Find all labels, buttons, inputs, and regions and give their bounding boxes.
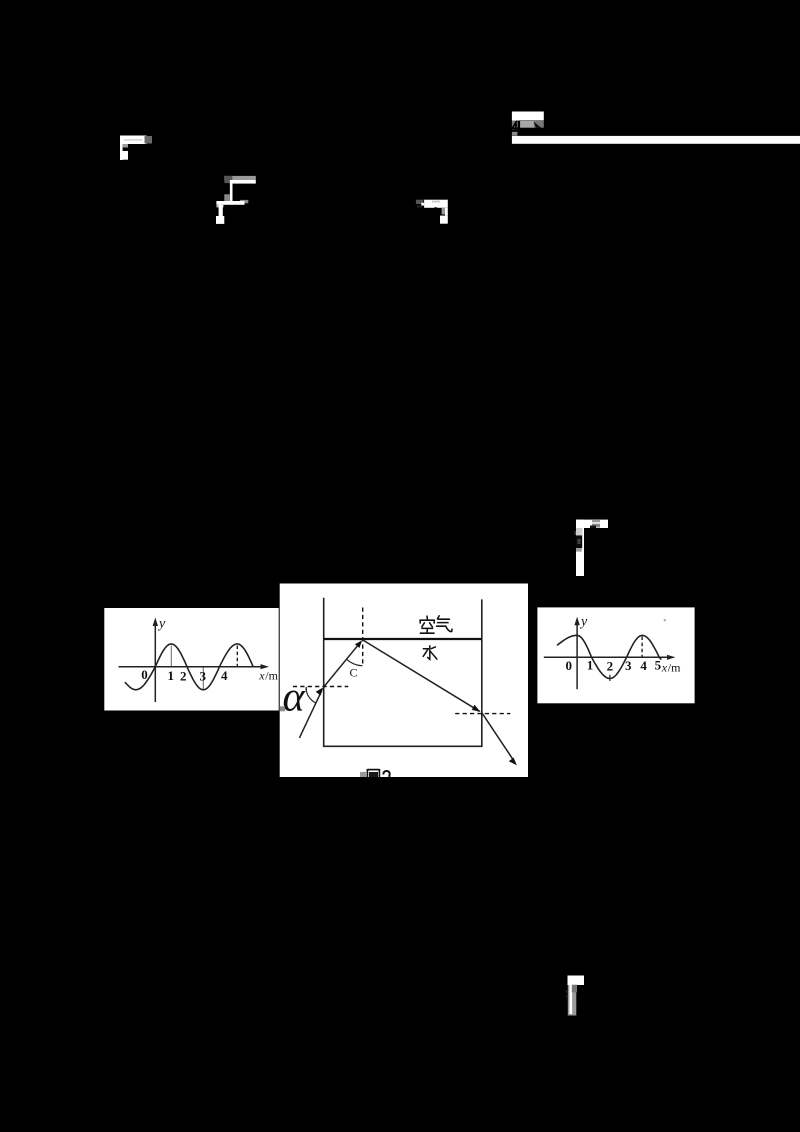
svg-text:4: 4: [221, 668, 228, 683]
caption 图2 (clipped): [367, 769, 389, 777]
x-axis: [544, 656, 671, 658]
arrowhead bottom right: [509, 758, 517, 766]
refracted ray beyond wall: [482, 713, 515, 763]
x-axis arrowhead: [261, 664, 270, 669]
svg-text:/m: /m: [265, 669, 278, 683]
arrowhead incident: [316, 687, 324, 695]
arrowhead at C: [355, 640, 362, 648]
svg-text:y: y: [579, 615, 588, 630]
svg-text:0: 0: [565, 658, 572, 673]
fragment F with 4 and long rule: [512, 112, 544, 136]
wave right: [557, 635, 661, 678]
beaker bottom: [323, 745, 483, 747]
tick on alpha arc: [305, 687, 307, 692]
fragment A white bar top: [120, 136, 152, 161]
x-axis arrowhead right graph: [667, 655, 675, 660]
dashed at peak2 right: [641, 637, 643, 657]
svg-text:2: 2: [607, 659, 614, 674]
dashed horizontal right: [455, 713, 510, 715]
tick at trough right: [609, 675, 611, 681]
svg-text:C: C: [350, 666, 358, 680]
fragment C arrow-notch shape: [416, 200, 448, 224]
arrowhead at right wall: [472, 705, 481, 712]
ray in water up to C: [324, 642, 361, 687]
labels: [141, 667, 228, 684]
beaker right wall: [481, 599, 483, 746]
angle alpha arc: [306, 688, 316, 703]
svg-text:1: 1: [587, 658, 594, 673]
air label 空: [420, 616, 434, 633]
svg-text:3: 3: [625, 658, 632, 673]
svg-text:/m: /m: [668, 661, 681, 675]
y-axis arrowhead: [153, 618, 158, 627]
beaker left wall: [323, 598, 325, 747]
ray C to right wall: [363, 640, 480, 711]
svg-text:α: α: [283, 675, 306, 721]
svg-text:5: 5: [655, 658, 662, 673]
y-axis arrowhead right graph: [574, 617, 579, 625]
wave left: [125, 644, 254, 690]
left graph white box: [104, 608, 278, 711]
fragment B F-shape: [216, 176, 256, 224]
air label 气: [437, 616, 452, 632]
fragment E bottom: [566, 976, 584, 1016]
water surface: [324, 638, 482, 640]
svg-text:0: 0: [141, 667, 148, 682]
svg-text:x: x: [258, 669, 265, 683]
svg-text:2: 2: [180, 669, 187, 684]
right graph white box: [537, 607, 694, 703]
svg-text:1: 1: [168, 668, 175, 683]
svg-text:3: 3: [200, 669, 207, 684]
middle diagram white box: [280, 584, 528, 778]
y-axis: [154, 623, 156, 702]
y-axis: [576, 622, 578, 689]
svg-text:4: 4: [640, 658, 647, 673]
dashed horizontal left: [293, 686, 348, 688]
long horizontal rule: [512, 136, 800, 144]
dashed line at peak2: [236, 646, 238, 667]
thin line at peak1: [170, 646, 172, 667]
thin line at trough: [202, 668, 204, 690]
gray speck: [280, 706, 285, 711]
angle C arc: [347, 659, 363, 666]
svg-text:y: y: [157, 617, 166, 632]
fragment D gamma shape: [575, 520, 609, 576]
x-axis: [119, 666, 265, 668]
water label 水: [423, 646, 437, 660]
gray dot: [664, 619, 666, 621]
svg-text:x: x: [661, 661, 668, 675]
dashed normal at C: [362, 608, 364, 664]
incident ray: [299, 690, 322, 738]
labels right graph: [565, 658, 661, 674]
